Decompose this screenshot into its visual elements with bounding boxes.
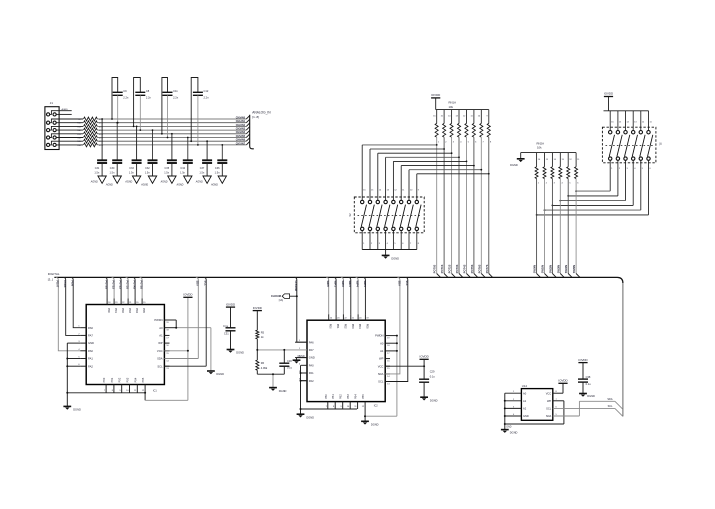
switch S2 dashed box [348, 197, 424, 233]
ground DGND C31 [227, 350, 244, 355]
svg-text:C37: C37 [200, 167, 205, 170]
svg-text:SCL: SCL [204, 281, 208, 287]
bus ANALOG_IN collector [246, 111, 271, 149]
svg-text:U14: U14 [522, 384, 528, 388]
svg-text:C35: C35 [165, 167, 170, 170]
svg-text:A0: A0 [380, 341, 384, 345]
svg-text:SDA: SDA [196, 281, 200, 287]
svg-text:C8: C8 [146, 89, 150, 93]
svg-text:DGND: DGND [279, 389, 287, 393]
ground AGND under C36 [210, 176, 227, 187]
resistor RN1 element 7 [478, 110, 485, 274]
wires S1 to RN2 staircase [536, 190, 649, 216]
resistor R6 4.99k [256, 360, 268, 370]
svg-text:PD4: PD4 [358, 324, 361, 329]
svg-text:A1: A1 [159, 334, 163, 338]
svg-text:VCC: VCC [378, 364, 384, 368]
capacitor C29 0.1u [419, 370, 435, 398]
svg-text:CH5AN5: CH5AN5 [236, 135, 246, 138]
svg-text:VCC: VCC [157, 349, 163, 353]
svg-text:C34: C34 [180, 167, 185, 170]
wire U14 address gnd [504, 393, 512, 429]
capacitor C35 1.5n [164, 133, 177, 176]
capacitor C30 1.5n [110, 122, 123, 176]
svg-text:PWDN: PWDN [154, 318, 162, 322]
svg-text:IOVDD: IOVDD [578, 358, 587, 362]
svg-text:POT7S: POT7S [485, 264, 489, 273]
svg-text:PEN: PEN [71, 281, 75, 286]
capacitor C36 1.5n [215, 144, 228, 176]
svg-text:IOVDD: IOVDD [431, 93, 440, 97]
svg-text:C31: C31 [224, 332, 229, 336]
svg-text:SW4IN: SW4IN [564, 265, 568, 273]
svg-text:2.2n: 2.2n [204, 96, 210, 100]
svg-text:[1A]: [1A] [279, 299, 284, 302]
svg-text:PB1: PB1 [332, 394, 335, 399]
ground DGND IC2 pin14 [361, 421, 379, 426]
wires bus drops to IC1 top [105, 277, 144, 298]
svg-text:AGND: AGND [105, 184, 113, 187]
power IOVDD at IC1 [183, 293, 192, 298]
svg-text:C11: C11 [173, 89, 178, 93]
svg-text:PWDN: PWDN [375, 334, 383, 338]
wire RN2 top rail [521, 152, 576, 154]
svg-text:A0: A0 [159, 326, 163, 330]
capacitor C34 1.5n [180, 137, 193, 176]
svg-text:CH1AN1: CH1AN1 [236, 120, 246, 123]
svg-text:A1: A1 [523, 399, 527, 403]
ground AGND under C35 [160, 176, 177, 184]
svg-text:PA2: PA2 [88, 364, 93, 368]
svg-text:PA7: PA7 [309, 348, 314, 352]
resistor RN1 element 3 [448, 110, 455, 274]
ground AGND under C30 [105, 176, 122, 187]
svg-text:CLK10M: CLK10M [271, 295, 281, 298]
svg-text:WIP3: WIP3 [348, 281, 352, 288]
svg-text:DGND: DGND [298, 355, 305, 358]
wires analog bus lines [97, 119, 246, 145]
svg-text:SCL: SCL [405, 281, 409, 287]
svg-text:CH7AN7: CH7AN7 [236, 142, 246, 145]
svg-text:DGND: DGND [216, 372, 224, 376]
svg-text:PCLK: PCLK [63, 281, 67, 288]
svg-text:AGND: AGND [140, 184, 148, 187]
svg-text:1.5n: 1.5n [180, 171, 185, 174]
wires RN1 to S2 staircase [362, 144, 489, 175]
svg-text:2.2n: 2.2n [173, 96, 179, 100]
ground DGND C38 [579, 394, 595, 399]
svg-text:0.1u: 0.1u [586, 382, 592, 386]
wires S2 bottom stubs [362, 231, 420, 250]
svg-text:C30: C30 [110, 167, 115, 170]
capacitor C32 1.5n [145, 129, 158, 176]
svg-text:0.1u: 0.1u [430, 375, 436, 379]
svg-text:WIP0: WIP0 [326, 281, 330, 288]
IC2 left pins [295, 340, 315, 383]
svg-text:A2: A2 [523, 407, 527, 411]
svg-text:IOVDD: IOVDD [253, 306, 262, 310]
svg-text:1.5n: 1.5n [164, 171, 169, 174]
IC1 left pins [78, 326, 94, 369]
power IOVDD at C31 [226, 302, 235, 328]
capacitor C31 1.5n [94, 118, 107, 176]
wire IC1 ground net [66, 343, 145, 406]
svg-text:AGND: AGND [195, 181, 203, 184]
svg-text:PA1: PA1 [309, 371, 314, 375]
ground DGND IC1 [63, 406, 81, 411]
capacitor C30 0.1u [279, 350, 292, 374]
svg-text:POT3S: POT3S [126, 281, 130, 290]
svg-text:GND: GND [88, 341, 94, 345]
ground DGND C29 [420, 397, 437, 402]
wires bus drops to IC1 left [56, 277, 80, 350]
svg-text:GND: GND [506, 427, 511, 429]
capacitor C12 2.2n [190, 78, 209, 146]
svg-text:IOVDD: IOVDD [558, 379, 567, 383]
svg-text:IOVDD: IOVDD [604, 92, 613, 96]
wire U14 VCC [553, 383, 563, 393]
ground DGND divider [269, 388, 286, 393]
svg-text:IC2: IC2 [374, 404, 378, 407]
connector J1 pins [47, 113, 57, 147]
svg-text:A1: A1 [380, 349, 384, 353]
wire CLK to IC2 PA6 [294, 277, 307, 342]
svg-text:SCL: SCL [378, 380, 384, 384]
svg-text:PB3: PB3 [127, 377, 130, 382]
svg-text:0.1u: 0.1u [223, 324, 229, 328]
svg-text:IOVDD: IOVDD [183, 293, 192, 297]
svg-text:DGND: DGND [510, 431, 518, 435]
svg-text:PD1: PD1 [336, 324, 339, 329]
svg-text:RN1A: RN1A [449, 100, 457, 104]
connector J1 header box [45, 101, 59, 150]
switch S2 elements [358, 200, 422, 230]
svg-text:PD1: PD1 [114, 308, 117, 313]
svg-text:WP: WP [379, 357, 384, 361]
svg-text:PDAT: PDAT [56, 281, 60, 288]
wires connector to resistors [50, 119, 83, 145]
svg-text:PB5: PB5 [362, 394, 365, 399]
bus entries POT0S-POT7S [433, 264, 493, 277]
capacitor C9 2.2n [111, 78, 129, 124]
svg-text:CH2AN2: CH2AN2 [236, 124, 246, 127]
svg-text:DGND: DGND [73, 408, 81, 412]
wire IC2 pin14 net [364, 335, 398, 418]
svg-text:1.5n: 1.5n [129, 171, 134, 174]
resistors R9-R16 series 49.9 [77, 117, 104, 147]
label DIGITAL [3..] [48, 272, 60, 282]
svg-text:DGND: DGND [587, 394, 595, 398]
svg-text:PA6: PA6 [309, 340, 314, 344]
svg-text:GND: GND [309, 356, 315, 360]
svg-text:SCL: SCL [157, 364, 163, 368]
svg-text:DGND: DGND [236, 351, 244, 355]
wires S2 top stubs [362, 145, 420, 200]
op-amp IC2 body [307, 320, 385, 407]
svg-text:PB2: PB2 [119, 377, 122, 382]
svg-text:IOVDD: IOVDD [226, 302, 235, 306]
wire U14 SDA to bus [553, 398, 623, 416]
svg-text:SW1IN: SW1IN [541, 265, 545, 273]
svg-text:PB3: PB3 [347, 394, 350, 399]
wire divider bottom [257, 370, 284, 387]
net labels CH0AN0-CH7AN7 [236, 116, 246, 145]
svg-text:WIP4: WIP4 [356, 281, 360, 288]
ground AGND under C31 [90, 176, 107, 184]
svg-text:WIP1: WIP1 [333, 281, 337, 288]
svg-text:R5: R5 [261, 331, 265, 335]
wire U14 SCL to bus [553, 405, 623, 417]
IC2 bottom pins [325, 394, 365, 422]
capacitor C31 0.1u [223, 324, 235, 350]
capacitor C8 2.2n [133, 78, 152, 132]
svg-text:[3..]: [3..] [48, 278, 53, 282]
resistor RN1 element 1 [433, 110, 440, 274]
svg-text:C9: C9 [123, 89, 127, 93]
ground DGND IC2 gnd pin [293, 355, 307, 364]
node CLK10M flag [271, 294, 297, 302]
resistor R5 1k [256, 330, 265, 339]
svg-text:AGND: AGND [175, 184, 183, 187]
label RN2A 10k [537, 141, 545, 149]
svg-text:PA1: PA1 [88, 357, 93, 361]
svg-text:SW3IN: SW3IN [556, 265, 560, 273]
wire U14 WP tie [505, 401, 564, 424]
IC1 bottom pins [103, 377, 145, 393]
svg-text:VCC: VCC [546, 391, 552, 395]
svg-text:SDA: SDA [546, 414, 552, 418]
wire IC1 VDD net [144, 297, 189, 400]
svg-text:CH0AN0: CH0AN0 [236, 116, 246, 119]
IC2 top pins [329, 314, 370, 329]
op-amp U14 body [521, 384, 552, 421]
resistor RN2 element 6 [575, 153, 581, 274]
svg-text:AGND: AGND [90, 181, 98, 184]
U14 right pin labels [546, 391, 558, 418]
U14 left pins [505, 391, 529, 418]
svg-text:C31: C31 [95, 167, 100, 170]
ground DGND under S2 [382, 250, 399, 261]
svg-text:PD2: PD2 [343, 324, 346, 329]
power IOVDD at C38 [578, 358, 587, 379]
resistor RN1 element 2 [441, 110, 448, 274]
wire connector row1 stubs [50, 108, 72, 115]
svg-text:1.5n: 1.5n [199, 171, 204, 174]
svg-text:DGND: DGND [306, 415, 314, 419]
svg-text:2.2n: 2.2n [146, 96, 152, 100]
svg-text:DGND: DGND [391, 257, 399, 261]
svg-text:PB5: PB5 [142, 377, 145, 382]
wire IOVDD rail S1 [604, 110, 649, 112]
svg-text:AGND: AGND [124, 181, 132, 184]
svg-text:AGND: AGND [62, 108, 69, 111]
wire IC1 SCL to bus [164, 277, 207, 366]
wire IC2 VCC [385, 365, 425, 367]
svg-text:POT4S: POT4S [463, 264, 467, 273]
svg-text:DGND: DGND [371, 423, 379, 427]
svg-text:1.5n: 1.5n [94, 171, 99, 174]
wires S1 top stubs [610, 111, 652, 131]
svg-text:SDA: SDA [378, 372, 384, 376]
wires S1 bottom stubs [610, 160, 651, 215]
resistor RN2 element 4 [559, 153, 565, 274]
bus DIGITAL right vertical [622, 283, 624, 416]
IC1 right pins [154, 318, 176, 370]
svg-text:PD0: PD0 [329, 324, 332, 329]
svg-text:10k: 10k [537, 146, 542, 150]
svg-text:10k: 10k [449, 105, 454, 109]
svg-text:C30: C30 [287, 359, 292, 363]
svg-text:PA6: PA6 [88, 326, 93, 330]
svg-text:C12: C12 [204, 89, 209, 93]
svg-text:1.5n: 1.5n [145, 171, 150, 174]
svg-text:POT2S: POT2S [448, 264, 452, 273]
svg-text:R6: R6 [261, 361, 265, 365]
svg-text:S2: S2 [348, 213, 352, 217]
svg-text:S1: S1 [658, 142, 662, 146]
svg-text:PD2: PD2 [121, 308, 124, 313]
resistor RN1 element 4 [455, 110, 462, 274]
ground DGND left of RN2 [510, 153, 524, 167]
svg-text:POT3S: POT3S [455, 264, 459, 273]
svg-text:WIP5: WIP5 [363, 281, 367, 288]
svg-text:AGND: AGND [210, 184, 218, 187]
svg-text:DGND: DGND [430, 398, 438, 402]
svg-text:PD3: PD3 [128, 308, 131, 313]
svg-text:CH3AN3: CH3AN3 [236, 128, 246, 131]
power IOVDD above S1 [604, 92, 613, 111]
ground DGND U14 [501, 430, 518, 435]
svg-text:CLK10M: CLK10M [294, 281, 298, 291]
svg-text:POT1S: POT1S [440, 264, 444, 273]
wire divider mid [256, 339, 307, 360]
bus entries SW0-SW5 [533, 265, 580, 278]
IC2 right pins [375, 334, 397, 386]
wire IC1 SDA to bus [164, 277, 199, 358]
label RN1A 10k [449, 100, 457, 109]
wire IC2 SDA to bus [385, 277, 401, 374]
svg-text:SW0IN: SW0IN [533, 265, 537, 273]
svg-text:[1..8]: [1..8] [252, 115, 259, 119]
wires bus drops to IC2 top [326, 277, 367, 314]
svg-text:4.99k: 4.99k [261, 366, 268, 370]
power IOVDD divider [253, 306, 262, 330]
svg-text:A0: A0 [523, 391, 527, 395]
svg-text:IC1: IC1 [153, 390, 157, 393]
capacitor C33 1.5n [129, 126, 142, 177]
svg-text:PD5: PD5 [365, 324, 368, 329]
wire IC2 ground net [300, 365, 358, 414]
svg-text:PB2: PB2 [340, 394, 343, 399]
resistor RN1 element 6 [471, 110, 478, 274]
resistor RN2 element 5 [567, 153, 573, 274]
svg-text:0.1u: 0.1u [287, 366, 293, 370]
resistor RN1 element 5 [463, 110, 470, 274]
resistor RN2 element 1 [535, 153, 541, 274]
svg-text:SDA: SDA [157, 357, 163, 361]
svg-text:CH4AN4: CH4AN4 [236, 131, 246, 134]
capacitor C38 0.1u [578, 375, 591, 394]
svg-text:WP: WP [547, 399, 551, 403]
ground DGND IC2 [297, 414, 315, 419]
svg-text:1.5n: 1.5n [110, 171, 115, 174]
svg-text:PB0: PB0 [103, 377, 106, 382]
wire IC2 SCL to bus [385, 277, 409, 381]
svg-text:POT5S: POT5S [470, 264, 474, 273]
svg-text:1.5n: 1.5n [215, 171, 220, 174]
svg-text:SDA: SDA [607, 398, 612, 401]
wire S2 common rail [362, 249, 417, 251]
svg-text:POT0S: POT0S [433, 264, 437, 273]
svg-text:C32: C32 [145, 167, 150, 170]
svg-text:POT1S: POT1S [112, 281, 116, 290]
IC1 top pins [107, 299, 146, 314]
svg-text:PB1: PB1 [111, 377, 114, 382]
svg-text:IOVDD: IOVDD [420, 355, 429, 359]
svg-text:C36: C36 [215, 167, 220, 170]
svg-text:CH6AN6: CH6AN6 [236, 139, 246, 142]
svg-text:C38: C38 [586, 375, 591, 379]
switch S1 dashed box [602, 127, 662, 163]
wire IC1 PWDN-A0 tie [175, 320, 211, 371]
svg-text:SCL: SCL [546, 407, 552, 411]
svg-text:POT5S: POT5S [140, 281, 144, 290]
svg-text:POT0S: POT0S [105, 281, 109, 290]
svg-text:SCL: SCL [608, 405, 613, 408]
power IOVDD above RN1 [431, 93, 440, 110]
svg-text:PD0: PD0 [107, 308, 110, 313]
svg-text:PA7: PA7 [88, 334, 93, 338]
resistor RN2 element 2 [543, 153, 549, 274]
svg-text:PB4: PB4 [134, 377, 137, 382]
resistor RN1 element 8 [486, 110, 492, 274]
svg-text:WP: WP [158, 341, 163, 345]
ground AGND under C37 [195, 176, 212, 184]
svg-text:SW5IN: SW5IN [572, 265, 576, 273]
svg-text:SDA: SDA [397, 281, 401, 287]
svg-text:POT6S: POT6S [477, 264, 481, 273]
capacitor C11 2.2n [161, 78, 179, 139]
svg-text:PA0: PA0 [309, 363, 314, 367]
svg-text:C29: C29 [430, 370, 435, 374]
svg-text:2.2n: 2.2n [123, 96, 129, 100]
svg-text:PB0: PB0 [325, 394, 328, 399]
svg-text:PD3: PD3 [351, 324, 354, 329]
svg-text:PA2: PA2 [309, 379, 314, 383]
capacitor C37 1.5n [199, 140, 212, 176]
resistor RN2 element 3 [551, 153, 557, 274]
op-amp IC1 body [86, 305, 164, 393]
svg-text:AGND: AGND [160, 181, 168, 184]
svg-text:POT4S: POT4S [133, 281, 137, 290]
svg-text:SW2IN: SW2IN [548, 265, 552, 273]
svg-text:J1: J1 [50, 101, 54, 105]
svg-text:C33: C33 [129, 167, 134, 170]
svg-text:DIGITAL: DIGITAL [48, 272, 60, 276]
ground DGND IC1 A0 [207, 371, 224, 376]
svg-text:PB4: PB4 [355, 394, 358, 399]
svg-text:PD4: PD4 [135, 308, 138, 313]
bus DIGITAL horizontal [54, 277, 623, 283]
svg-text:PA0: PA0 [88, 349, 93, 353]
power IOVDD at U14 [558, 379, 567, 384]
svg-text:GND: GND [523, 414, 529, 418]
svg-text:WIP2: WIP2 [341, 281, 345, 288]
ground AGND under C34 [175, 176, 192, 187]
power IOVDD at C29 [420, 355, 429, 380]
svg-text:POT2S: POT2S [119, 281, 123, 290]
svg-text:DGND: DGND [510, 163, 518, 167]
